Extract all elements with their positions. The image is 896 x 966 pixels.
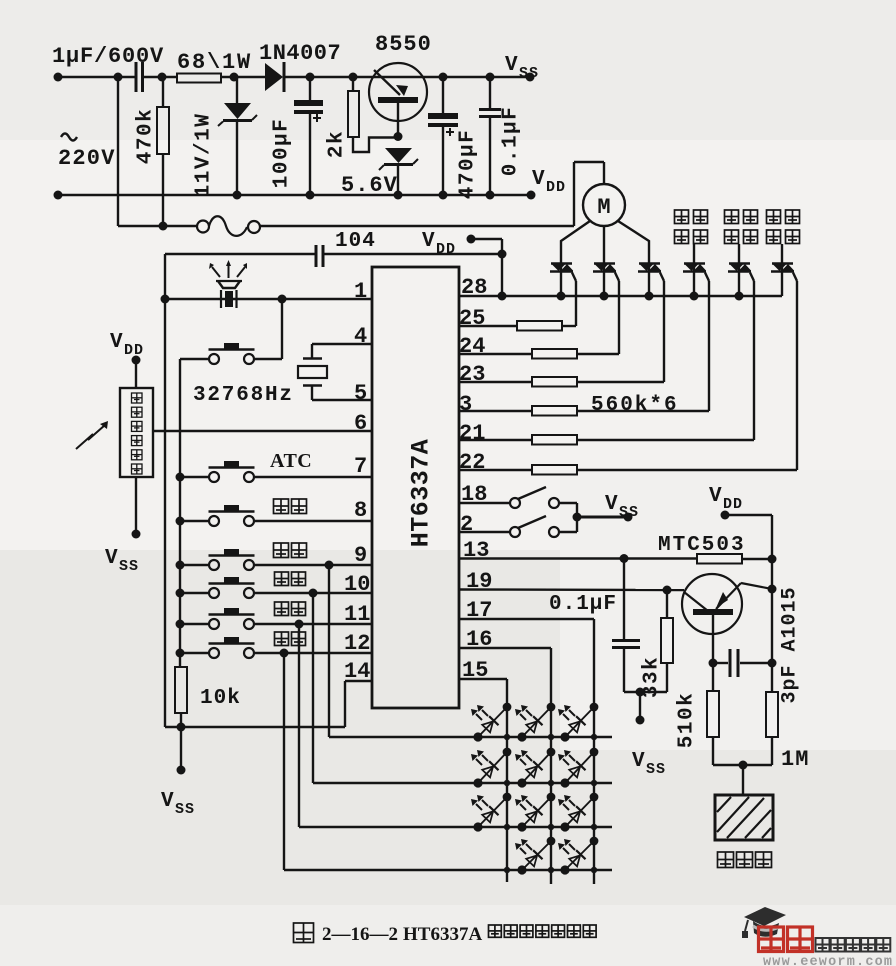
node VDD mid (467, 235, 476, 244)
node zener 5.6V bottom (394, 191, 403, 200)
zener diode ZD1 11V/1W (236, 77, 238, 103)
node 0.1uF top junction (620, 554, 629, 563)
wire triac T2 gate (615, 273, 619, 282)
pushbutton SW2 ATC (176, 473, 185, 482)
svg-text:0.1µF: 0.1µF (500, 106, 523, 177)
node LED D21 anode (503, 748, 512, 757)
label output vertical-swing (725, 210, 739, 224)
resistor R13 1M (766, 692, 778, 737)
svg-text:11V/1W: 11V/1W (193, 113, 216, 198)
node LED D23 cathode (560, 778, 569, 787)
node 104 to VDD vertical (498, 250, 507, 259)
wire pin6 IR output (153, 430, 372, 432)
switch S2 pin2 (459, 531, 510, 533)
LED D32 (522, 797, 551, 827)
wire pin15 to LED column 1 (459, 678, 507, 680)
watermark chongchong red characters (759, 927, 784, 952)
wire drop from node A to fuse line (117, 77, 119, 226)
svg-text:8: 8 (354, 498, 367, 523)
wire LED row 1 feed (328, 565, 330, 737)
node cap-resistor junction (158, 73, 167, 82)
svg-text:SS: SS (175, 801, 195, 818)
svg-text:SS: SS (646, 761, 666, 778)
svg-text:SS: SS (519, 65, 539, 82)
label fan-speed button (274, 543, 289, 558)
wire triac T6 gate (793, 273, 797, 282)
IR indicator LED (216, 280, 242, 282)
triac T5 (738, 244, 740, 263)
pushbutton SW7 swing (176, 649, 185, 658)
svg-text:10k: 10k (200, 687, 241, 710)
label output horizontal-swing (675, 210, 689, 224)
node on pin28 rail (645, 292, 654, 301)
resistor R2 470k (162, 77, 164, 107)
svg-text:V: V (632, 750, 645, 773)
LED D33 (565, 797, 594, 827)
node LED D23 anode (590, 748, 599, 757)
resistor R1 68/1W (177, 74, 221, 83)
node collector junction (709, 659, 718, 668)
svg-text:1µF/600V: 1µF/600V (52, 44, 164, 69)
node LED D32 cathode (517, 822, 526, 831)
label AC source ~220V (61, 134, 77, 141)
label touch pad (718, 852, 734, 868)
label timer button (275, 572, 289, 586)
resistor R6 560k (459, 381, 532, 383)
capacitor C2 100uF electrolytic (309, 77, 311, 100)
svg-text:ATC: ATC (270, 450, 312, 472)
svg-text:V: V (422, 230, 435, 253)
pushbutton SW5 timer (176, 589, 185, 598)
capacitor C7 3pF (713, 662, 728, 664)
wire LED row 3 feed (298, 624, 300, 827)
LED D31 (478, 797, 507, 827)
wire branch to button1 (281, 299, 283, 359)
resistor R8 560k (459, 439, 532, 441)
svg-text:1M: 1M (781, 747, 809, 772)
svg-text:100µF: 100µF (271, 118, 294, 189)
svg-text:HT6337A: HT6337A (403, 924, 482, 945)
node on pin28 rail (600, 292, 609, 301)
wire triac T1 gate (572, 273, 576, 282)
node LED D13 cathode (560, 732, 569, 741)
svg-text:220V: 220V (58, 146, 116, 171)
op-amp U1 HT6337A IC body (372, 267, 459, 708)
resistor R9 560k (459, 469, 532, 471)
node crossing blob (591, 867, 597, 873)
wire pin13 (459, 557, 697, 559)
node IR emitter branch (278, 295, 287, 304)
zener diode ZD2 5.6V (385, 148, 412, 163)
label aux button (274, 499, 289, 514)
svg-text:V: V (161, 790, 174, 813)
LED D13 (565, 707, 594, 737)
svg-text:DD: DD (436, 241, 456, 258)
svg-text:HT6337A: HT6337A (407, 439, 436, 548)
svg-text:V: V (105, 547, 118, 570)
node crossing blob (504, 734, 510, 740)
svg-text:25: 25 (459, 306, 485, 331)
node MTC503 right (768, 555, 777, 564)
node crossing blob (504, 780, 510, 786)
node mains N input (54, 191, 63, 200)
IR signal arrow (76, 425, 105, 449)
svg-text:7: 7 (354, 454, 367, 479)
wire bottom VDD rail (58, 194, 531, 197)
node LED row feed x=329 (325, 561, 334, 570)
node crossing blob (591, 824, 597, 830)
triac T4 (693, 244, 695, 263)
svg-text:DD: DD (723, 496, 743, 513)
wire motor right winding (618, 221, 649, 263)
transistor Q1 8550 PNP (369, 63, 427, 121)
wire touch node (713, 764, 772, 766)
node VSS switches (624, 513, 633, 522)
touch pad electrode (715, 795, 773, 840)
node LED D11 cathode (473, 732, 482, 741)
node touch junction (739, 761, 748, 770)
node VSS rail end (526, 73, 535, 82)
svg-text:V: V (532, 168, 545, 191)
node on pin28 rail (735, 292, 744, 301)
wire pin16 to LED column 2 (459, 647, 551, 649)
node LED D31 cathode (473, 822, 482, 831)
wire pin17 to LED column 3 (459, 618, 594, 620)
label swing button (275, 632, 289, 646)
node LED D32 anode (547, 793, 556, 802)
svg-text:470k: 470k (135, 108, 158, 164)
node LED D41 cathode (517, 865, 526, 874)
watermark site name characters (816, 938, 830, 952)
node 470uF top (439, 73, 448, 82)
svg-text:5.6V: 5.6V (341, 173, 398, 198)
node LED D12 cathode (517, 732, 526, 741)
svg-text:M: M (597, 195, 610, 220)
capacitor C1 1uF/600V (135, 62, 138, 92)
wire triac T3 gate (660, 273, 664, 282)
caption figure title (294, 923, 314, 943)
svg-text:V: V (505, 54, 518, 77)
wire top mains rail (58, 76, 136, 79)
svg-text:104: 104 (335, 230, 376, 253)
svg-text:4: 4 (354, 324, 367, 349)
resistor R10 MTC503 (697, 554, 742, 564)
node LED D13 anode (590, 703, 599, 712)
wire pin28 VDD rail (459, 295, 782, 297)
svg-text:1: 1 (354, 279, 367, 304)
node diode output (306, 73, 315, 82)
LED D11 (478, 707, 507, 737)
svg-text:3: 3 (459, 392, 472, 417)
node 3pF right (768, 659, 777, 668)
svg-text:32768Hz: 32768Hz (193, 384, 294, 407)
node crossing blob (591, 734, 597, 740)
LED D41 (522, 841, 551, 870)
wire VDD to pin28 rail (471, 238, 502, 240)
capacitor C6 0.1uF (623, 558, 625, 640)
svg-text:V: V (110, 331, 123, 354)
svg-text:DD: DD (546, 179, 566, 196)
wire pin1 (165, 298, 372, 300)
pushbutton SW3 aux (176, 517, 185, 526)
pushbutton SW6 fan-mode (176, 620, 185, 629)
node LED D33 anode (590, 793, 599, 802)
svg-text:560k*6: 560k*6 (591, 394, 679, 417)
motor M1 (583, 184, 625, 226)
pushbutton SW4 fan-speed (176, 561, 185, 570)
triac T3 (639, 262, 660, 264)
node VSS stub 33k (636, 688, 645, 697)
svg-text:28: 28 (461, 275, 487, 300)
svg-text:21: 21 (459, 421, 485, 446)
wire 2k to base node (353, 137, 398, 152)
triac T6 (781, 244, 783, 263)
node 2k top (349, 73, 358, 82)
triac T1 (551, 262, 572, 264)
resistor R3 2k (352, 77, 354, 91)
wire motor left winding (561, 221, 590, 263)
wire VSS left vertical (164, 254, 166, 727)
node 0.1uF top (486, 73, 495, 82)
node 0.1uF bottom (486, 191, 495, 200)
watermark graduation cap logo (744, 907, 786, 926)
node LED D41 anode (547, 837, 556, 846)
node LED D21 cathode (473, 778, 482, 787)
svg-text:6: 6 (354, 411, 367, 436)
svg-text:MTC503: MTC503 (658, 534, 746, 557)
wire VSS bottom run to pin14 (165, 726, 345, 728)
wire LED row 4 feed (283, 653, 285, 870)
wire switch common to VSS (577, 516, 628, 519)
node 470uF bottom (439, 191, 448, 200)
node LED D22 cathode (517, 778, 526, 787)
node LED row feed x=284 (280, 649, 289, 658)
node LED D42 cathode (560, 865, 569, 874)
wire fuse to motor loop (260, 225, 574, 227)
svg-text:23: 23 (459, 362, 485, 387)
resistor R14 10k (175, 667, 187, 713)
node 10k bottom (177, 723, 186, 732)
crystal X1 32768Hz (312, 343, 372, 345)
svg-text:24: 24 (459, 334, 485, 359)
node LED row feed x=299 (295, 620, 304, 629)
svg-text:2k: 2k (326, 130, 349, 158)
LED D21 (478, 752, 507, 783)
capacitor C4 0.1uF (489, 77, 491, 108)
label fan-mode button (275, 602, 289, 616)
svg-text:2: 2 (460, 512, 473, 537)
node zener 11V bottom (233, 191, 242, 200)
resistor R7 560k (459, 410, 532, 412)
resistor R12 510k (712, 663, 714, 691)
wire triac T4 gate (705, 273, 709, 282)
node A top-left junction (114, 73, 123, 82)
svg-text:2—16—2: 2—16—2 (322, 924, 398, 945)
svg-text:3pF A1015: 3pF A1015 (779, 586, 802, 703)
svg-text:0.1µF: 0.1µF (549, 593, 617, 616)
triac T2 (594, 262, 615, 264)
node crossing blob (504, 824, 510, 830)
fuse F1 (118, 225, 197, 227)
node LED row feed x=313 (309, 589, 318, 598)
node Q1 base junction (394, 132, 403, 141)
node switch common (573, 513, 582, 522)
node LED D31 anode (503, 793, 512, 802)
node on pin28 rail (690, 292, 699, 301)
wire VDD right vertical (725, 514, 772, 516)
wire pin19 (459, 588, 684, 591)
switch S1 pin18 (459, 502, 510, 504)
svg-text:22: 22 (459, 450, 485, 475)
svg-text:V: V (605, 493, 618, 516)
node crossing blob (548, 734, 554, 740)
node LED D42 anode (590, 837, 599, 846)
LED D22 (522, 752, 551, 783)
svg-text:470µF: 470µF (457, 129, 480, 200)
resistor R11 33k (666, 590, 668, 618)
node LED D22 anode (547, 748, 556, 757)
svg-text:68\1W: 68\1W (177, 50, 252, 75)
svg-text:1N4007: 1N4007 (259, 41, 341, 66)
node on pin28 rail (557, 292, 566, 301)
wire caps common bottom (624, 691, 667, 693)
node crossing blob (548, 867, 554, 873)
capacitor C5 104 decoupling (165, 253, 316, 255)
node pin1 left (161, 295, 170, 304)
pushbutton SW1 oscillation (209, 354, 219, 364)
svg-text:8550: 8550 (375, 32, 432, 57)
wire Q2 collector (712, 615, 714, 663)
svg-text:510k: 510k (676, 692, 699, 748)
label output auxiliary (767, 210, 781, 224)
wire LED row 2 feed (312, 593, 314, 783)
node LED D12 anode (547, 703, 556, 712)
LED D12 (522, 707, 551, 737)
node 100uF bottom (306, 191, 315, 200)
resistor R5 560k (459, 353, 532, 355)
transistor Q2 A1015 PNP (682, 574, 742, 634)
LED D23 (565, 752, 594, 783)
node crossing blob (504, 867, 510, 873)
node VDD right (721, 511, 730, 520)
node mains L input (54, 73, 63, 82)
node crossing blob (548, 780, 554, 786)
resistor R4 560k pin25 (459, 325, 517, 327)
svg-text:SS: SS (619, 504, 639, 521)
node crossing blob (591, 780, 597, 786)
diode D1 1N4007 (265, 63, 283, 91)
wire motor center winding (603, 226, 605, 263)
svg-text:5: 5 (354, 381, 367, 406)
node VDD rail end (527, 191, 536, 200)
node Q2 emitter to VDD line (768, 585, 777, 594)
node crossing blob (548, 824, 554, 830)
capacitor C3 470uF electrolytic (442, 77, 444, 113)
svg-text:www.eeworm.com: www.eeworm.com (763, 955, 893, 966)
node 33k top (663, 586, 672, 595)
svg-text:V: V (709, 485, 722, 508)
node LED D33 cathode (560, 822, 569, 831)
node LED D11 anode (503, 703, 512, 712)
node on pin28 rail (498, 292, 507, 301)
LED D42 (565, 841, 594, 870)
svg-text:SS: SS (119, 558, 139, 575)
wire triac T5 gate (750, 273, 754, 282)
node VSS bottom terminal (177, 766, 186, 775)
node resistor-diode junction (230, 73, 239, 82)
